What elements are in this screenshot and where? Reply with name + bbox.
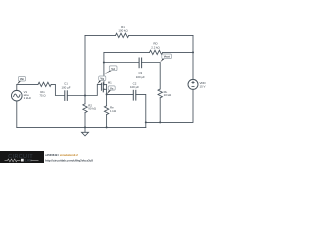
svg-text:1 kΩ: 1 kΩ (110, 109, 117, 113)
svg-text:M1: M1 (108, 80, 112, 84)
wire C1 to gate node (67, 95, 85, 97)
resistor R1 (116, 33, 129, 37)
svg-text:100 µF: 100 µF (136, 75, 145, 79)
node flag Vg (97, 76, 105, 84)
wire top rail left (85, 34, 116, 36)
node flag Vs (107, 86, 116, 94)
svg-text:1 kHz: 1 kHz (24, 96, 32, 100)
svg-text:Vin: Vin (20, 77, 25, 81)
label V1 sine 1 kHz (24, 90, 32, 100)
node Re ground junction (106, 126, 108, 128)
wire top rail right (129, 34, 193, 36)
node RL bottom junction (159, 121, 161, 123)
capacitor C1 (65, 91, 68, 101)
wire ground rail (17, 126, 146, 128)
capacitor C3 (139, 58, 142, 68)
node C2 bottom junction (145, 121, 147, 123)
wire V1 top lead (16, 84, 18, 90)
resistor RL (158, 89, 162, 98)
wire Re bottom (106, 115, 108, 128)
resistor Rin (38, 82, 51, 86)
label C1 100 uF (61, 82, 70, 90)
wire gate vertical (84, 35, 86, 103)
ground (82, 127, 89, 135)
node R2 ground junction (84, 126, 86, 128)
svg-text:s4530649 / simulation2-2: s4530649 / simulation2-2 (45, 153, 78, 157)
node source junction (106, 93, 108, 95)
watermark text (45, 153, 93, 163)
svg-text:http://circuitlab.com/c6hq2vbz: http://circuitlab.com/c6hq2vbzz3c8 (45, 158, 93, 162)
wire V1 top to Rin (17, 83, 38, 85)
label R1 100 kOhm (118, 25, 128, 33)
voltage source V1 (11, 90, 22, 101)
label C2 100 uF (130, 82, 139, 89)
node drain C3 junction (103, 61, 105, 63)
svg-text:2.2 kΩ: 2.2 kΩ (151, 45, 160, 49)
label VDD 15 V (200, 81, 206, 89)
wire drain vertical (103, 52, 105, 84)
wire RD to right rail (163, 51, 193, 53)
resistor Re (104, 106, 108, 115)
label Re 1 kOhm (110, 106, 117, 113)
wire drain rail horizontal (104, 51, 150, 53)
svg-text:Vs: Vs (110, 86, 114, 90)
node flag Vout (160, 54, 171, 62)
svg-text:100 kΩ: 100 kΩ (118, 29, 128, 33)
wire RL bottom (159, 98, 161, 123)
svg-text:100 µF: 100 µF (130, 85, 139, 89)
resistor RD (150, 50, 163, 54)
svg-text:100 µF: 100 µF (61, 85, 70, 89)
svg-text:Vd: Vd (111, 67, 115, 71)
wire V1 bottom lead (16, 101, 18, 128)
wire C2 right down (136, 94, 146, 127)
svg-text:90 kΩ: 90 kΩ (88, 107, 96, 111)
resistor R2 (83, 104, 87, 113)
node gate junction (84, 94, 86, 96)
label Rin 75 Ohm (39, 90, 46, 97)
label R2 90 kOhm (88, 104, 96, 111)
label RD 2.2 kOhm (151, 42, 160, 50)
svg-text:Vout: Vout (164, 55, 170, 59)
wire VDD bottom (146, 89, 193, 122)
wire right rail down to VDD (192, 35, 194, 79)
svg-text:15 V: 15 V (200, 85, 206, 89)
label C3 100 uF (136, 71, 145, 79)
watermark logo box (0, 151, 44, 163)
svg-text:10 kΩ: 10 kΩ (164, 93, 172, 97)
svg-text:75 Ω: 75 Ω (39, 93, 46, 97)
label RL 10 kOhm (164, 90, 172, 97)
voltage source VDD (188, 79, 198, 89)
node flag Vd (104, 66, 117, 75)
wire source to C2 (107, 93, 134, 95)
transistor M1 (101, 83, 106, 95)
wire C3 rail (104, 62, 139, 64)
svg-text:Vg: Vg (100, 77, 104, 81)
wire gate to M1 (85, 84, 101, 95)
wire source to Re (106, 94, 108, 105)
node flag Vin (17, 77, 25, 85)
capacitor C2 (133, 90, 136, 100)
node RD rail junction (192, 51, 194, 53)
wire C3 to RL corner (142, 63, 161, 90)
wire R2 bottom (84, 113, 86, 128)
wire Rin to jog (51, 84, 64, 95)
